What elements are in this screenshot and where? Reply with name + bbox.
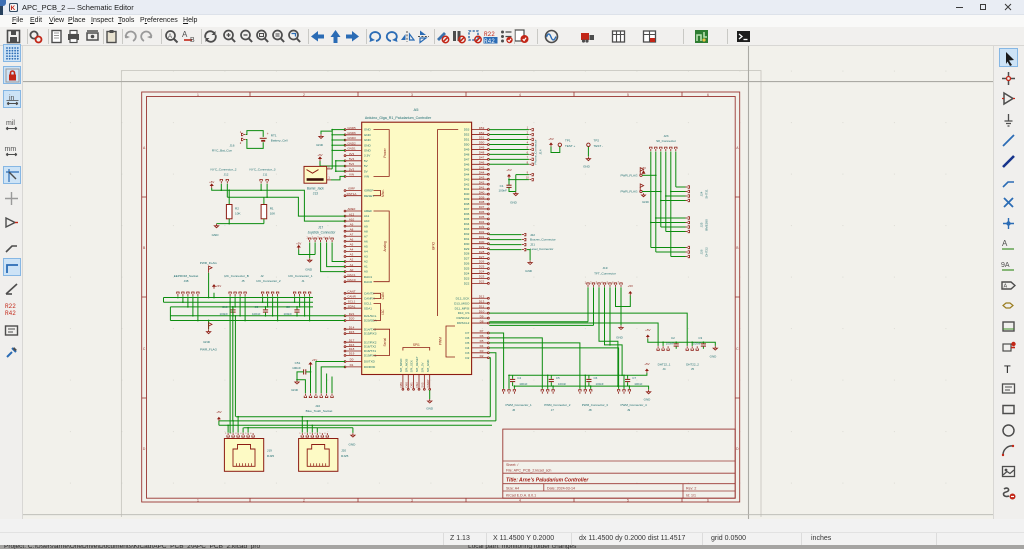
svg-text:mil: mil (6, 120, 15, 127)
svg-text:D90: D90 (404, 382, 408, 388)
svg-text:D12_SCK: D12_SCK (456, 296, 471, 300)
svg-text:D39: D39 (464, 197, 470, 201)
svg-text:C8: C8 (286, 305, 290, 309)
svg-text:RST1A: RST1A (347, 192, 357, 196)
svg-text:D34: D34 (479, 220, 485, 224)
svg-text:AREF: AREF (364, 209, 372, 213)
svg-text:D51: D51 (464, 138, 470, 142)
svg-text:A4: A4 (364, 250, 368, 254)
svg-text:D1: D1 (350, 363, 354, 367)
svg-text:D23: D23 (464, 277, 470, 281)
svg-text:D31: D31 (464, 237, 470, 241)
svg-text:A11: A11 (364, 214, 370, 218)
svg-text:SDA1: SDA1 (348, 304, 356, 308)
svg-text:TEST +: TEST + (565, 144, 575, 148)
svg-text:IOREF: IOREF (364, 189, 374, 193)
svg-text:PWR_FLAG: PWR_FLAG (200, 348, 218, 352)
svg-text:D11: D11 (479, 304, 485, 308)
svg-text:D40: D40 (464, 192, 470, 196)
svg-text:PWM: PWM (439, 337, 443, 345)
svg-text:DAC0: DAC0 (347, 278, 355, 282)
svg-text:Size: A4: Size: A4 (506, 486, 519, 490)
svg-text:J9: J9 (627, 408, 631, 412)
svg-text:BME280: BME280 (705, 219, 709, 231)
svg-text:Sheet: /: Sheet: / (506, 463, 518, 467)
svg-text:DHT22_1: DHT22_1 (658, 362, 671, 366)
svg-text:RT1: RT1 (271, 134, 277, 138)
svg-text:A6: A6 (364, 239, 368, 243)
svg-text:J19: J19 (267, 449, 272, 453)
svg-text:C3: C3 (698, 336, 702, 340)
svg-text:C9: C9 (255, 305, 259, 309)
svg-text:D8/SCL2: D8/SCL2 (457, 321, 470, 325)
svg-text:D8: D8 (480, 319, 484, 323)
svg-text:SDA1: SDA1 (364, 306, 372, 310)
svg-text:D33: D33 (479, 225, 485, 229)
svg-text:D3: D3 (465, 351, 469, 355)
svg-text:C4: C4 (517, 376, 521, 380)
svg-text:D52: D52 (464, 133, 470, 137)
svg-text:D50: D50 (479, 141, 485, 145)
svg-text:Power: Power (383, 147, 387, 157)
svg-text:D46: D46 (479, 161, 485, 165)
svg-text:DHT22_2: DHT22_2 (686, 362, 699, 366)
svg-text:A5: A5 (364, 244, 368, 248)
svg-text:PWR_FLAG: PWR_FLAG (620, 173, 638, 177)
svg-text:D53: D53 (464, 128, 470, 132)
svg-text:3: 3 (411, 499, 413, 503)
svg-text:SCL1: SCL1 (364, 302, 372, 306)
svg-text:100nF: 100nF (292, 366, 301, 370)
svg-text:3V3: 3V3 (349, 152, 355, 156)
svg-text:D29: D29 (464, 247, 470, 251)
svg-text:100nF: 100nF (498, 188, 507, 192)
svg-text:D18/TX1: D18/TX1 (364, 349, 376, 353)
svg-text:GPIO: GPIO (431, 241, 435, 250)
svg-text:D4: D4 (480, 344, 484, 348)
svg-text:D52: D52 (479, 131, 485, 135)
svg-text:D38: D38 (464, 202, 470, 206)
svg-text:A0: A0 (350, 268, 354, 272)
svg-text:D2: D2 (480, 354, 484, 358)
svg-text:J8: J8 (588, 408, 592, 412)
svg-text:C51: C51 (295, 361, 301, 365)
svg-text:D2: D2 (465, 356, 469, 360)
svg-text:D16/TX2: D16/TX2 (364, 345, 376, 349)
svg-text:J20: J20 (341, 449, 346, 453)
svg-text:100nF: 100nF (693, 341, 701, 345)
svg-text:GND5: GND5 (347, 126, 356, 130)
svg-text:CANR: CANR (347, 295, 356, 299)
svg-text:D42: D42 (479, 180, 485, 184)
svg-text:J26: J26 (700, 249, 704, 254)
svg-text:D41: D41 (464, 187, 470, 191)
svg-text:+5V: +5V (506, 168, 511, 172)
svg-text:D41: D41 (479, 185, 485, 189)
svg-text:+5V: +5V (645, 328, 650, 332)
svg-text:R1: R1 (270, 206, 274, 210)
svg-text:D10_CS: D10_CS (458, 311, 470, 315)
svg-text:CANTX: CANTX (364, 291, 375, 295)
svg-text:D49: D49 (479, 146, 485, 150)
svg-text:D10: D10 (479, 309, 485, 313)
svg-text:D25: D25 (464, 267, 470, 271)
svg-text:File: APC_PCB_2.kicad_sch: File: APC_PCB_2.kicad_sch (506, 469, 551, 473)
svg-text:D27: D27 (479, 255, 485, 259)
svg-text:D30: D30 (464, 242, 470, 246)
svg-text:GND: GND (525, 269, 533, 273)
svg-text:D89: D89 (399, 382, 403, 388)
svg-text:SPI_5V: SPI_5V (420, 362, 424, 372)
svg-text:J11: J11 (263, 172, 268, 176)
svg-text:1: 1 (197, 93, 199, 97)
svg-text:D3: D3 (480, 349, 484, 353)
svg-text:GND: GND (364, 133, 372, 137)
svg-text:3.3V: 3.3V (364, 154, 371, 158)
svg-text:NYC_Connector_2: NYC_Connector_2 (211, 168, 237, 172)
svg-text:D4: D4 (465, 346, 469, 350)
svg-text:I2C_Connector_B: I2C_Connector_B (224, 274, 249, 278)
svg-text:D34: D34 (464, 222, 470, 226)
svg-text:SPI_GND: SPI_GND (426, 360, 430, 373)
svg-text:100nF: 100nF (252, 312, 261, 316)
svg-text:DAC1: DAC1 (347, 273, 355, 277)
svg-text:CANRX: CANRX (364, 297, 375, 301)
svg-text:SPI_MOSI: SPI_MOSI (404, 358, 408, 372)
svg-text:D37: D37 (479, 205, 485, 209)
svg-text:J24: J24 (700, 191, 704, 196)
svg-text:D44: D44 (479, 170, 485, 174)
svg-text:D27: D27 (464, 257, 470, 261)
svg-text:GND: GND (348, 443, 356, 447)
svg-text:D13_MISO: D13_MISO (454, 301, 470, 305)
svg-text:SPI_MISO: SPI_MISO (399, 358, 403, 372)
svg-text:J13: J13 (313, 191, 318, 195)
svg-text:C7: C7 (632, 376, 636, 380)
svg-text:mm: mm (5, 146, 17, 153)
svg-text:D48: D48 (464, 153, 470, 157)
svg-text:GND: GND (212, 233, 220, 237)
svg-text:D43: D43 (479, 175, 485, 179)
svg-text:D9/SDA2: D9/SDA2 (456, 316, 469, 320)
svg-text:KiCad E.D.A. 8.0.1: KiCad E.D.A. 8.0.1 (506, 494, 536, 498)
svg-text:GND: GND (364, 138, 372, 142)
svg-text:J22: J22 (530, 233, 535, 237)
svg-text:D35: D35 (464, 217, 470, 221)
svg-text:+5V: +5V (317, 153, 322, 157)
svg-text:PWM_Connector_3: PWM_Connector_3 (582, 403, 609, 407)
svg-text:D15: D15 (349, 330, 355, 334)
svg-text:D21: D21 (349, 312, 355, 316)
svg-text:C10: C10 (222, 305, 228, 309)
svg-text:D43: D43 (464, 177, 470, 181)
svg-text:DAC0: DAC0 (364, 280, 373, 284)
svg-text:D39: D39 (479, 195, 485, 199)
svg-text:PWR_FLAG: PWR_FLAG (200, 261, 218, 265)
svg-text:GND: GND (426, 407, 434, 411)
svg-text:Serial: Serial (383, 338, 387, 347)
svg-text:100nF: 100nF (284, 312, 293, 316)
svg-text:J19: J19 (603, 266, 608, 270)
svg-text:D14: D14 (349, 325, 355, 329)
svg-text:+5V: +5V (216, 410, 221, 414)
svg-text:D91: D91 (410, 382, 414, 388)
svg-text:A8: A8 (350, 227, 354, 231)
svg-text:6: 6 (707, 499, 709, 503)
svg-text:D16: D16 (349, 343, 355, 347)
svg-text:D18: D18 (349, 347, 355, 351)
svg-text:2: 2 (303, 93, 305, 97)
svg-text:DAC1: DAC1 (364, 275, 373, 279)
svg-text:D6: D6 (465, 336, 469, 340)
svg-text:SPI1: SPI1 (413, 343, 420, 347)
svg-text:5: 5 (627, 93, 629, 97)
svg-text:A6: A6 (350, 238, 354, 242)
svg-text:4: 4 (519, 93, 521, 97)
svg-text:GND2: GND2 (347, 141, 356, 145)
svg-text:D20: D20 (349, 317, 355, 321)
svg-text:A5: A5 (350, 243, 354, 247)
svg-text:SCL1: SCL1 (348, 300, 356, 304)
svg-text:PWM_Connector_4: PWM_Connector_4 (621, 403, 648, 407)
svg-text:Battery_Cell: Battery_Cell (271, 139, 288, 143)
svg-text:R42: R42 (484, 38, 495, 44)
svg-text:DHT22: DHT22 (705, 247, 709, 257)
svg-text:+5V: +5V (644, 362, 649, 366)
svg-text:A1: A1 (364, 265, 368, 269)
svg-text:Date: 2024-03-14: Date: 2024-03-14 (547, 486, 575, 490)
svg-text:5: 5 (627, 499, 629, 503)
svg-text:Analog: Analog (383, 241, 387, 251)
svg-text:A: A (1004, 283, 1008, 289)
svg-text:J5: J5 (691, 367, 695, 371)
svg-text:Misc.: Misc. (381, 189, 385, 197)
svg-text:Level_Connector: Level_Connector (530, 247, 553, 251)
svg-text:TEST -: TEST - (594, 144, 603, 148)
svg-text:T: T (1004, 364, 1011, 376)
svg-text:A10: A10 (364, 219, 370, 223)
svg-text:GND: GND (642, 200, 650, 204)
svg-text:D0: D0 (350, 358, 354, 362)
svg-text:I2C_Connector_1: I2C_Connector_1 (288, 274, 313, 278)
svg-text:TFT_Connector: TFT_Connector (594, 271, 616, 275)
svg-text:GND: GND (316, 143, 324, 147)
svg-text:D29: D29 (479, 245, 485, 249)
svg-text:GND: GND (364, 149, 372, 153)
svg-text:J21: J21 (530, 242, 535, 246)
svg-text:D28: D28 (464, 252, 470, 256)
svg-text:PWM_Connector_1: PWM_Connector_1 (506, 403, 533, 407)
svg-text:+5V: +5V (216, 284, 221, 288)
svg-text:D38: D38 (479, 200, 485, 204)
svg-text:GND: GND (710, 355, 718, 359)
svg-text:VIN: VIN (364, 175, 369, 179)
svg-text:D47: D47 (479, 156, 485, 160)
svg-text:Blue_Tooth_Socket: Blue_Tooth_Socket (306, 409, 333, 413)
svg-text:4: 4 (519, 499, 521, 503)
svg-text:+5V: +5V (641, 166, 646, 170)
svg-text:A3: A3 (350, 253, 354, 257)
svg-text:2: 2 (303, 499, 305, 503)
svg-text:100nF: 100nF (666, 341, 674, 345)
svg-text:D35: D35 (479, 215, 485, 219)
svg-text:D53: D53 (479, 126, 485, 130)
svg-text:9A: 9A (1001, 262, 1010, 269)
svg-text:D36: D36 (464, 212, 470, 216)
svg-text:EEPROM_Socket: EEPROM_Socket (174, 274, 199, 278)
svg-text:Rev: 2: Rev: 2 (686, 486, 696, 490)
svg-text:D49: D49 (464, 148, 470, 152)
svg-text:D40: D40 (479, 190, 485, 194)
svg-text:RJ25: RJ25 (341, 454, 349, 458)
svg-text:D45: D45 (479, 166, 485, 170)
svg-text:GND: GND (291, 388, 299, 392)
svg-text:PWM_Connector_2: PWM_Connector_2 (544, 403, 571, 407)
svg-text:6: 6 (707, 93, 709, 97)
svg-text:C6: C6 (594, 376, 598, 380)
svg-text:A8: A8 (364, 229, 368, 233)
svg-text:RYC_Bat_Con: RYC_Bat_Con (212, 149, 233, 153)
svg-text:D24: D24 (479, 270, 485, 274)
svg-text:J14: J14 (539, 149, 543, 154)
svg-text:A0: A0 (364, 270, 368, 274)
svg-text:5V2: 5V2 (349, 162, 355, 166)
svg-text:RESET: RESET (364, 194, 374, 198)
svg-text:J10: J10 (315, 404, 320, 408)
svg-text:Phone_Connector: Phone_Connector (534, 140, 538, 165)
svg-text:C1: C1 (500, 184, 504, 188)
svg-text:D6: D6 (480, 334, 484, 338)
svg-text:D17: D17 (349, 338, 355, 342)
svg-text:GND: GND (583, 164, 591, 168)
svg-text:CANT: CANT (347, 290, 355, 294)
svg-text:R22: R22 (484, 31, 495, 38)
svg-text:K: K (11, 5, 16, 12)
svg-text:SPI_RESET: SPI_RESET (415, 356, 419, 372)
svg-text:GND7: GND7 (426, 379, 430, 387)
svg-text:R22: R22 (5, 303, 16, 310)
svg-text:D7: D7 (465, 331, 469, 335)
svg-text:D31: D31 (479, 235, 485, 239)
svg-text:VIN: VIN (349, 173, 354, 177)
svg-text:GND: GND (364, 143, 372, 147)
svg-text:I2C_Connector_2: I2C_Connector_2 (256, 279, 281, 283)
svg-text:GND: GND (510, 200, 518, 204)
svg-text:D30: D30 (479, 240, 485, 244)
svg-text:D21/SCL: D21/SCL (364, 314, 377, 318)
svg-text:A2: A2 (364, 260, 368, 264)
svg-text:A10: A10 (349, 217, 355, 221)
svg-text:J23: J23 (664, 134, 669, 138)
svg-text:D0/RXD: D0/RXD (364, 365, 376, 369)
svg-text:5V3: 5V3 (349, 167, 355, 171)
svg-text:R42: R42 (5, 310, 16, 316)
svg-text:D42: D42 (464, 182, 470, 186)
svg-text:SHT31: SHT31 (705, 189, 709, 199)
svg-text:A4: A4 (350, 248, 354, 252)
svg-text:10K: 10K (235, 212, 241, 216)
svg-text:D7: D7 (480, 329, 484, 333)
svg-text:A: A (1002, 239, 1008, 248)
svg-text:J2: J2 (260, 274, 264, 278)
svg-text:A13: A13 (349, 212, 355, 216)
svg-text:J1: J1 (301, 279, 305, 283)
svg-text:D23: D23 (479, 275, 485, 279)
svg-text:GND: GND (364, 128, 372, 132)
svg-text:A3: A3 (364, 255, 368, 259)
svg-text:Id: 1/1: Id: 1/1 (686, 494, 696, 498)
svg-text:1: 1 (197, 499, 199, 503)
svg-text:A7: A7 (364, 234, 368, 238)
svg-text:GND6: GND6 (347, 131, 356, 135)
svg-text:Joystick_Connector: Joystick_Connector (308, 231, 337, 235)
svg-text:A5: A5 (414, 107, 420, 112)
svg-text:D22: D22 (464, 281, 470, 285)
svg-text:A1: A1 (350, 263, 354, 267)
svg-text:Arduino_Giga_R1_Paludarium_Con: Arduino_Giga_R1_Paludarium_Controller (365, 116, 432, 120)
svg-text:D46: D46 (464, 162, 470, 166)
svg-text:D5: D5 (480, 339, 484, 343)
svg-text:5V4: 5V4 (349, 157, 355, 161)
svg-text:Title: Arne's Paludarium Contr: Title: Arne's Paludarium Controller (506, 477, 589, 483)
svg-text:+5V: +5V (296, 241, 301, 245)
svg-text:GND: GND (616, 335, 624, 339)
svg-text:D32: D32 (464, 232, 470, 236)
svg-text:D92: D92 (415, 382, 419, 388)
svg-text:J38: J38 (184, 279, 189, 283)
svg-text:10K: 10K (270, 212, 276, 216)
svg-text:GND: GND (305, 267, 313, 271)
svg-text:D26: D26 (479, 260, 485, 264)
svg-text:D26: D26 (464, 262, 470, 266)
svg-text:TP2: TP2 (594, 138, 600, 142)
svg-text:D45: D45 (464, 167, 470, 171)
svg-text:RJ25: RJ25 (267, 454, 275, 458)
svg-text:D44: D44 (464, 172, 470, 176)
svg-text:D47: D47 (464, 157, 470, 161)
svg-text:J12: J12 (224, 172, 229, 176)
svg-text:D22: D22 (479, 280, 485, 284)
svg-text:A: A (168, 34, 172, 40)
svg-text:GND3: GND3 (347, 136, 356, 140)
svg-text:C2: C2 (671, 336, 675, 340)
svg-text:SPI_SCK: SPI_SCK (410, 360, 414, 372)
svg-text:TP1: TP1 (565, 138, 571, 142)
svg-text:D11_MPSI: D11_MPSI (455, 306, 470, 310)
svg-text:D12: D12 (479, 294, 485, 298)
svg-text:J6: J6 (512, 408, 516, 412)
svg-text:A: A (182, 30, 188, 39)
svg-text:D51: D51 (479, 136, 485, 140)
svg-text:5V5: 5V5 (420, 382, 424, 388)
svg-text:D32: D32 (479, 230, 485, 234)
svg-text:D33: D33 (464, 227, 470, 231)
svg-text:J4: J4 (662, 367, 666, 371)
svg-text:+: + (267, 132, 269, 136)
svg-text:PWR_FLAG: PWR_FLAG (620, 190, 638, 194)
svg-text:3: 3 (411, 93, 413, 97)
svg-text:IORF: IORF (348, 187, 355, 191)
svg-text:+5V: +5V (548, 137, 553, 141)
svg-text:D37: D37 (464, 207, 470, 211)
svg-text:D50: D50 (464, 143, 470, 147)
svg-text:CAN: CAN (381, 292, 385, 300)
svg-text:A9: A9 (350, 222, 354, 226)
svg-text:in: in (9, 95, 15, 102)
svg-text:Barrel_Jack: Barrel_Jack (307, 187, 324, 191)
svg-text:GND: GND (203, 340, 211, 344)
svg-text:R2: R2 (235, 206, 239, 210)
